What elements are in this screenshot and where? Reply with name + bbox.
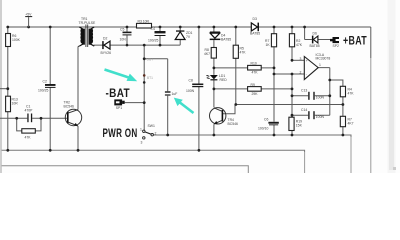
scrollbar thumb <box>389 40 394 170</box>
cyan arrow 2 <box>174 98 194 113</box>
svg-text:15K: 15K <box>296 124 303 128</box>
svg-text:D6: D6 <box>313 31 317 35</box>
node dots rail y45 <box>126 44 129 47</box>
svg-text:100/25: 100/25 <box>38 88 48 92</box>
svg-text:10R: 10R <box>12 102 19 106</box>
svg-text:100N: 100N <box>186 89 195 93</box>
wire mid bus y135 <box>153 135 351 137</box>
svg-text:2: 2 <box>300 71 302 75</box>
svg-text:SP1: SP1 <box>116 106 123 110</box>
svg-text:C8: C8 <box>189 79 193 83</box>
node dots output vertical <box>328 79 331 82</box>
svg-text:1K: 1K <box>266 43 271 47</box>
zener diode ZD1 <box>175 30 192 39</box>
wire left rail x7.8 <box>7 27 9 150</box>
svg-text:47K: 47K <box>240 51 247 55</box>
svg-text:47K: 47K <box>25 136 32 140</box>
wire D4/R8/LED/T4 chain x213.9 <box>213 27 215 135</box>
wire R2 branch x292 <box>291 27 293 135</box>
svg-text:47K: 47K <box>296 43 303 47</box>
transistor T2 <box>64 101 82 127</box>
wire C8 branch x198.9 <box>198 27 200 150</box>
node dots left rail <box>6 87 9 90</box>
connector SP1 <box>114 99 124 109</box>
svg-text:47K: 47K <box>252 71 259 75</box>
wire C1/R parallel loop <box>17 118 41 131</box>
wire long routing drops lower-right <box>305 58 371 173</box>
diode D2 <box>101 37 112 55</box>
wire bottom line y165.8 <box>2 166 249 173</box>
svg-text:-BAT: -BAT <box>106 88 131 100</box>
svg-text:1: 1 <box>319 63 321 67</box>
svg-text:RED: RED <box>220 78 228 82</box>
resistor R7b <box>340 116 353 126</box>
svg-text:2: 2 <box>155 132 157 136</box>
svg-text:-: - <box>306 73 307 77</box>
capacitor C6 <box>258 118 279 131</box>
cyan arrow 1 <box>105 70 138 82</box>
wire C5 branch x127 <box>126 27 128 45</box>
svg-text:BT1: BT1 <box>147 76 153 80</box>
svg-text:SW1: SW1 <box>148 124 155 128</box>
node dots y104.5 ends <box>234 103 237 106</box>
svg-text:1uF: 1uF <box>172 92 178 96</box>
wire left stub y88.7 <box>0 88 8 90</box>
svg-text:100N: 100N <box>316 115 325 119</box>
wire bottom bus y150.3 <box>2 150 305 152</box>
diode D3 (series in bus) <box>250 17 260 36</box>
svg-text:C6: C6 <box>264 118 268 122</box>
svg-text:D3: D3 <box>253 17 257 21</box>
svg-text:SP2: SP2 <box>333 44 340 48</box>
wire R7 branch x274 with C6 <box>273 27 275 135</box>
capacitor C1 <box>25 105 34 123</box>
resistor R3 (series in bus) <box>137 20 152 29</box>
svg-text:BYV26: BYV26 <box>101 51 112 55</box>
wire op-amp output <box>318 68 330 116</box>
node dots x292 <box>291 59 294 62</box>
resistor R13 <box>6 96 19 112</box>
resistor R4 <box>340 86 354 97</box>
svg-text:TR-PULSE: TR-PULSE <box>79 21 97 25</box>
right scrollbar gutter <box>388 0 396 173</box>
wire zener ZD1 leads x180.2 <box>179 27 181 45</box>
svg-text:BC546: BC546 <box>228 122 238 126</box>
resistor R8 <box>204 48 216 59</box>
wire R10 lead y67.9 <box>214 67 274 69</box>
svg-text:47K: 47K <box>348 92 355 96</box>
svg-text:1: 1 <box>140 128 142 132</box>
resistor R19 <box>289 117 303 130</box>
left page-edge gray strip <box>0 0 2 173</box>
svg-text:C13: C13 <box>301 88 307 92</box>
node dots top bus <box>6 26 9 29</box>
zener diode D4 <box>210 32 232 42</box>
svg-text:R10: R10 <box>251 62 257 66</box>
connector SP2 <box>330 37 339 48</box>
resistor R7 <box>265 34 277 47</box>
svg-text:3: 3 <box>141 141 143 145</box>
capacitor C8 <box>186 79 203 93</box>
svg-text:29K: 29K <box>252 92 259 96</box>
wire C4 branch x160 <box>159 27 161 45</box>
transformer TR1 <box>78 17 96 47</box>
wire feedback line y104.5 <box>236 104 343 106</box>
node dots LED chain <box>213 67 216 70</box>
svg-text:470P: 470P <box>25 109 34 113</box>
node dots bottom bus y150.3 <box>6 149 9 152</box>
svg-text:C2: C2 <box>43 80 47 84</box>
wire R9 lead y88.9 <box>214 88 292 90</box>
svg-text:+BAT: +BAT <box>343 36 367 48</box>
svg-text:C14: C14 <box>301 108 307 112</box>
transistor T4 (mirrored) <box>210 108 238 126</box>
LED LD1 <box>206 74 227 82</box>
resistor R5 <box>233 45 246 58</box>
wire right vertical drop from top bus <box>370 27 372 58</box>
switch SW1 <box>140 124 157 145</box>
wire T2 base line y118.3 <box>0 117 68 119</box>
wire transformer primary to T2 collector <box>77 47 79 110</box>
svg-text:3: 3 <box>300 57 302 61</box>
wire C13 line y95.8 <box>292 95 330 97</box>
diode D6 <box>310 31 320 48</box>
wire C14 line y115.2 <box>292 114 330 116</box>
wire T4 base riser <box>222 105 235 114</box>
wire R4 branch <box>330 80 343 135</box>
wire op-amp pin3 lead y60.3 <box>292 59 304 61</box>
wire -BAT lead y102.6 <box>125 102 145 104</box>
svg-text:100K: 100K <box>12 38 21 42</box>
resistor R1 47K (base loop) <box>22 129 36 140</box>
capacitor C13 <box>301 88 324 100</box>
capacitor C4 <box>148 27 166 43</box>
wire op-amp pin2 lead y74 <box>274 73 304 75</box>
wire top supply bus y27 <box>8 26 371 28</box>
svg-text:BC546: BC546 <box>64 105 74 109</box>
wire jog y58.8 to 1uF branch <box>144 59 168 135</box>
capacitor C2 <box>38 80 56 93</box>
node dots x144.2 <box>143 57 146 60</box>
wire +BAT stub and lead <box>305 27 330 40</box>
resistor R2 <box>289 34 302 47</box>
resistor R9 <box>248 83 262 96</box>
svg-text:10N: 10N <box>120 38 127 42</box>
svg-text:PWR ON: PWR ON <box>103 128 138 140</box>
node dots mid bus y135 <box>166 134 169 137</box>
svg-text:4K7: 4K7 <box>204 52 210 56</box>
svg-text:R9: R9 <box>251 83 255 87</box>
svg-text:100N: 100N <box>316 96 325 100</box>
node dots base line y118.3 <box>15 117 18 120</box>
capacitor 1uF (small) <box>165 91 177 96</box>
+5V supply symbol <box>25 13 32 27</box>
capacitor C5 <box>120 28 132 42</box>
svg-text:OUT: OUT <box>147 57 154 61</box>
svg-text:7V: 7V <box>186 35 191 39</box>
svg-text:BAT85: BAT85 <box>221 38 231 42</box>
svg-text:100/10: 100/10 <box>258 126 268 130</box>
node dots x274 <box>273 67 276 70</box>
svg-text:100/25: 100/25 <box>148 39 158 43</box>
wire R5 branch x235.8 <box>235 27 237 105</box>
wire x144.2 vertical to switch <box>143 45 145 130</box>
wire secondary rail y45 <box>94 44 181 46</box>
op-amp IC3-A <box>300 53 331 80</box>
svg-text:BAT85: BAT85 <box>310 44 320 48</box>
svg-text:C5: C5 <box>120 28 124 32</box>
svg-text:C4: C4 <box>151 27 155 31</box>
svg-text:R3 10R: R3 10R <box>138 20 150 24</box>
svg-text:4K7: 4K7 <box>348 122 354 126</box>
svg-text:+: + <box>306 59 308 63</box>
svg-text:MC33078: MC33078 <box>316 57 331 61</box>
wire T2 emitter down <box>77 126 79 150</box>
resistor R6 <box>6 34 21 47</box>
resistor R10 <box>248 62 262 75</box>
wire C2 branch x50.2 <box>49 27 51 150</box>
capacitor C14 <box>301 108 324 119</box>
svg-text:D2: D2 <box>103 37 107 41</box>
svg-text:BAT85: BAT85 <box>250 32 260 36</box>
